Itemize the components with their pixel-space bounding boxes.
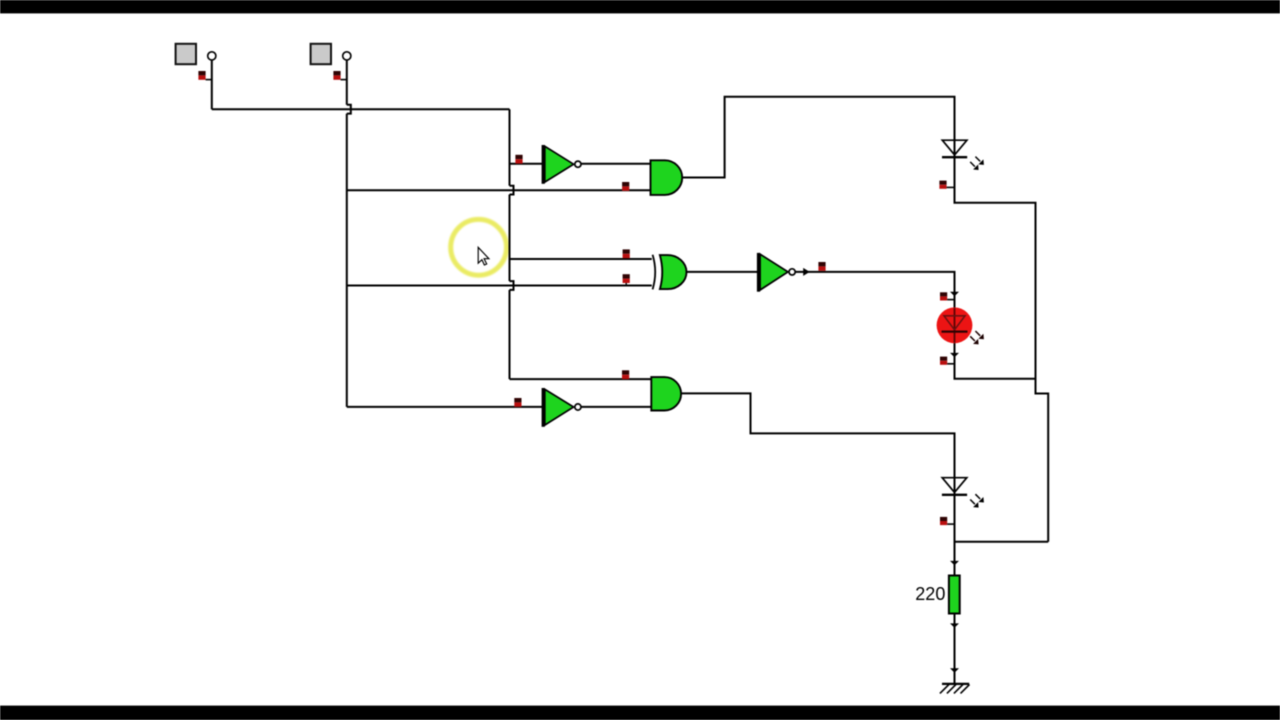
current arrow below resistor	[950, 623, 959, 627]
click highlight ring	[451, 219, 507, 275]
probe pin on D2 cathode	[940, 357, 955, 365]
wire hop over y285	[510, 281, 514, 290]
probe pin on SW2 wire	[333, 71, 346, 80]
push button SW2	[311, 44, 331, 64]
mouse cursor	[478, 247, 489, 265]
wire LED2 cathode down to rail	[955, 343, 1036, 379]
SW1 output terminal	[208, 52, 216, 60]
probe pin on U1 input	[515, 155, 522, 164]
resistor R1	[949, 576, 960, 614]
current arrow out of LED D2	[950, 353, 959, 357]
LED D1 (off)	[942, 140, 984, 170]
XOR gate U3 body	[660, 255, 687, 289]
wire AND1 output to LED1	[682, 97, 955, 178]
wire B vertical main	[346, 114, 348, 407]
wire B tap to XOR lower input	[347, 285, 652, 287]
wire NOT3 output to LED2	[795, 272, 954, 308]
current arrow above resistor	[950, 561, 959, 565]
wire XOR output to NOT3	[687, 271, 758, 273]
SW2 output terminal	[343, 52, 351, 60]
probe pin on D3 cathode	[940, 517, 955, 525]
wire B tap to AND1 lower input	[347, 189, 651, 191]
probe pin on U3 lower input	[623, 274, 630, 285]
wire A to AND2 upper input	[510, 378, 652, 380]
probe pin on U5 input	[514, 398, 521, 407]
probe pin on D2 anode	[940, 292, 955, 300]
probe pin on U2 lower input	[622, 182, 629, 191]
probe pin on U3 upper input	[623, 249, 630, 258]
wire A column vertical upper	[509, 109, 511, 185]
svg-text:220: 220	[915, 584, 945, 604]
LED D3 (off)	[942, 478, 984, 508]
wire NOT2 output to AND2 lower input	[581, 406, 651, 408]
ground	[940, 684, 970, 694]
current arrow into LED D2	[950, 292, 959, 296]
AND gate U6	[651, 377, 681, 410]
wire A column vertical lower	[509, 290, 511, 379]
push button SW1	[176, 44, 196, 64]
wire NOT1 output to AND1 upper input	[581, 163, 650, 165]
wire LED3 cathode down through resistor to ground	[954, 495, 956, 575]
probe pin on D1 cathode	[939, 181, 954, 189]
wire resistor to ground	[954, 613, 956, 683]
probe pin on U4 output	[818, 262, 825, 271]
XOR gate U3 input arc	[653, 255, 656, 290]
current arrow on U4 output	[803, 268, 810, 276]
wire A tap to XOR upper input	[510, 258, 652, 260]
inverter U5 (NOT)	[542, 388, 581, 427]
current arrow above ground	[950, 668, 959, 672]
wire A tap to NOT1 input	[510, 163, 543, 165]
probe pin on SW1 wire	[198, 71, 211, 80]
letterbox top bar	[0, 0, 1280, 13]
wire A column vertical middle	[509, 195, 511, 282]
wire bottom junction to right rail	[955, 541, 1049, 543]
wire AND2 output to LED3	[681, 393, 954, 494]
wire LED1 cathode to right rail	[955, 158, 1049, 542]
wire hop over y190	[510, 186, 514, 195]
probe pin on U6 upper input	[622, 370, 629, 379]
wire A vertical from switch SW1 terminal	[211, 60, 213, 109]
wire A horizontal to node column	[212, 108, 510, 110]
inverter U1 (NOT)	[542, 145, 581, 184]
LED D2 (lit red)	[937, 307, 984, 344]
wire hop over y109	[347, 105, 351, 114]
wire B to NOT2 input	[347, 406, 542, 408]
inverter U4 (NOT after XOR)	[757, 253, 795, 292]
AND gate U2	[651, 160, 683, 195]
letterbox bottom bar	[0, 706, 1280, 720]
wire B vertical from switch SW2 terminal	[346, 60, 348, 105]
